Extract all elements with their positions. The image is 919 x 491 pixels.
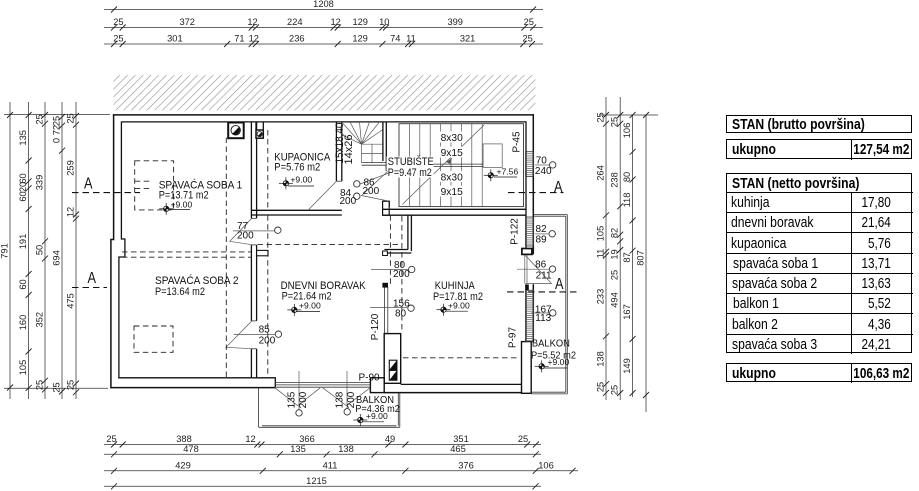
wall top outer [113, 114, 534, 116]
svg-text:25: 25 [518, 434, 528, 444]
svg-text:106: 106 [538, 460, 554, 470]
svg-text:25: 25 [106, 434, 116, 444]
svg-text:478: 478 [183, 444, 199, 454]
wall kupaonica bottom [251, 210, 341, 215]
wall left outer [111, 114, 114, 388]
svg-text:105: 105 [596, 226, 606, 242]
wall winder right boundary [383, 122, 386, 161]
svg-text:+9.00: +9.00 [448, 300, 470, 310]
svg-text:399: 399 [447, 17, 463, 27]
level +9.00 balkon 2 [353, 411, 388, 426]
svg-text:82: 82 [610, 228, 620, 238]
svg-text:P-120: P-120 [370, 313, 381, 340]
dashed wardrobe soba 2 [134, 326, 173, 352]
svg-text:74: 74 [390, 34, 400, 44]
svg-text:233: 233 [596, 289, 606, 305]
svg-text:200: 200 [259, 335, 276, 346]
svg-text:475: 475 [66, 293, 76, 309]
svg-text:388: 388 [176, 434, 192, 444]
svg-text:352: 352 [35, 312, 45, 328]
svg-text:82: 82 [536, 224, 548, 235]
dashed ceiling line horizontal corridor pair [122, 252, 251, 257]
svg-text:71: 71 [234, 34, 244, 44]
svg-text:301: 301 [167, 34, 183, 44]
wall pier between balcony doors [370, 378, 384, 393]
svg-text:60: 60 [18, 191, 28, 201]
svg-text:11: 11 [406, 34, 416, 44]
svg-text:A: A [84, 176, 93, 193]
svg-text:P-97: P-97 [508, 327, 519, 349]
svg-text:224: 224 [287, 17, 303, 27]
chimney vent boxes in pier [389, 360, 397, 380]
svg-text:+9.00: +9.00 [290, 174, 312, 184]
label door 80/200 [371, 269, 408, 271]
balcony 2 parapet [259, 388, 400, 428]
label door 86/200 stair [360, 173, 389, 184]
level +7.56 stubiste [484, 166, 519, 181]
svg-text:791: 791 [0, 243, 10, 259]
svg-text:694: 694 [52, 250, 62, 266]
svg-text:25: 25 [35, 114, 45, 124]
svg-text:264: 264 [596, 165, 606, 181]
svg-text:+9.00: +9.00 [366, 411, 388, 421]
door 135 swing [275, 388, 320, 406]
label door 85/200 [234, 333, 276, 335]
svg-text:P=9.47 m2: P=9.47 m2 [388, 167, 432, 179]
wire left dimension column 5 [75, 102, 77, 399]
svg-text:25: 25 [610, 270, 620, 280]
wire left extension line top [4, 114, 110, 116]
svg-text:135: 135 [287, 391, 298, 408]
table STAN netto [726, 173, 912, 353]
svg-text:106: 106 [622, 123, 632, 139]
svg-text:149: 149 [622, 358, 632, 374]
door 86/211 swing [526, 256, 552, 284]
table STAN brutto header [726, 115, 912, 133]
label door 86/211 [517, 268, 550, 270]
hatched neighbour structure band [113, 75, 535, 110]
wall kitchen bottom inner [401, 383, 522, 385]
svg-text:240: 240 [535, 166, 552, 177]
svg-text:429: 429 [175, 460, 191, 470]
glazing P-90 balcony 2 doors [275, 383, 371, 388]
wall cap below door 80 [383, 283, 388, 287]
svg-text:25: 25 [113, 17, 123, 27]
svg-text:14x26: 14x26 [343, 135, 355, 165]
svg-text:138: 138 [338, 444, 354, 454]
svg-text:465: 465 [450, 444, 466, 454]
section line A upper right [508, 192, 564, 194]
svg-text:118: 118 [622, 193, 632, 208]
svg-text:160: 160 [18, 315, 28, 331]
wire left extension line bottom [4, 387, 108, 389]
svg-text:376: 376 [458, 460, 474, 470]
stair winder flight [342, 122, 387, 165]
svg-text:113: 113 [535, 313, 551, 324]
svg-text:P=5.76 m2: P=5.76 m2 [274, 161, 320, 173]
wall balcony divider chunk [522, 342, 532, 394]
svg-text:366: 366 [299, 434, 315, 444]
wall kitchen bottom outer [384, 392, 531, 394]
svg-text:372: 372 [179, 17, 195, 27]
level +9.00 dnevni boravak [287, 301, 321, 316]
level +9.00 balkon 1 [535, 357, 570, 372]
svg-text:25: 25 [113, 34, 123, 44]
svg-text:+9.00: +9.00 [299, 301, 321, 311]
svg-text:P-122: P-122 [510, 218, 521, 245]
door 85 swing [226, 321, 252, 349]
wire left dimension column 3 [44, 102, 46, 399]
svg-text:89: 89 [536, 234, 548, 245]
wire right extension line top [599, 114, 658, 116]
svg-text:+9.00: +9.00 [171, 199, 193, 209]
svg-text:807: 807 [636, 250, 646, 266]
svg-text:25: 25 [66, 380, 76, 390]
svg-text:STUBIŠTE: STUBIŠTE [388, 155, 434, 168]
svg-text:259: 259 [66, 160, 76, 176]
wire bottom dimension row 1 [104, 444, 541, 446]
door 77 swing [230, 219, 252, 245]
svg-text:129: 129 [352, 17, 368, 27]
svg-text:1208: 1208 [313, 0, 334, 9]
svg-text:8x30: 8x30 [441, 173, 463, 184]
wire left dimension column 4 [61, 102, 63, 399]
svg-text:85: 85 [259, 325, 271, 336]
wall right inner [525, 121, 527, 341]
svg-text:12: 12 [66, 207, 76, 217]
wire top dimension row 2 [104, 27, 543, 29]
wall stubiste bottom [383, 209, 526, 215]
wire right dimension column C [632, 115, 634, 397]
wire left dimension column 2 [28, 102, 30, 399]
door 86/211 opening in right wall [525, 254, 535, 284]
svg-text:339: 339 [35, 175, 45, 191]
wall kupaonica right vertical [336, 122, 341, 181]
svg-text:25: 25 [523, 34, 533, 44]
svg-text:138: 138 [334, 391, 345, 408]
window P-120 kitchen left [384, 287, 387, 333]
svg-text:138: 138 [596, 351, 606, 367]
wire bottom dimension row 2 [104, 453, 541, 455]
svg-text:80: 80 [622, 172, 632, 182]
svg-text:20: 20 [18, 182, 28, 192]
svg-text:129: 129 [352, 34, 368, 44]
wall stub below stair door [383, 201, 390, 215]
svg-text:211: 211 [536, 271, 552, 282]
dashed wardrobe soba 1 [135, 161, 174, 210]
dashed ceiling line vertical stair hall [389, 215, 391, 287]
svg-text:11: 11 [596, 249, 606, 259]
wire bottom dimension row 4 total 1215 [104, 485, 541, 487]
svg-text:9x15: 9x15 [441, 187, 463, 198]
svg-text:135: 135 [18, 130, 28, 146]
svg-text:50: 50 [35, 245, 45, 255]
svg-text:12: 12 [331, 17, 341, 27]
section line A upper left [72, 192, 140, 194]
svg-text:1215: 1215 [306, 476, 327, 486]
svg-text:25: 25 [610, 385, 620, 395]
wire left dimension total 791 [9, 102, 11, 399]
svg-text:135: 135 [290, 444, 306, 454]
table STAN netto ukupno row [726, 363, 912, 383]
wall right outer [532, 114, 534, 342]
svg-text:105: 105 [18, 360, 28, 376]
svg-text:P-45: P-45 [512, 131, 523, 153]
dashed ceiling line horizontal kitchen [403, 357, 519, 359]
wire bottom dimension row 3 [104, 470, 578, 472]
svg-text:12: 12 [249, 34, 259, 44]
svg-text:25: 25 [610, 117, 620, 127]
label door 84/200 kupaonica [354, 193, 360, 199]
svg-text:A: A [555, 276, 564, 293]
dashed ceiling line vertical kupaonica/dnevni [267, 130, 269, 378]
level +9.00 soba 1 [159, 199, 192, 215]
svg-text:25: 25 [66, 113, 76, 123]
label window 156/80 [370, 307, 407, 309]
label window 82/89 [535, 233, 549, 235]
label door 138/200 rotated [346, 371, 348, 409]
wall jog pilaster right of door 77 [257, 250, 268, 255]
svg-text:200: 200 [363, 186, 380, 197]
dashed ceiling line vertical soba [225, 138, 227, 378]
svg-text:25: 25 [524, 17, 534, 27]
svg-text:86: 86 [535, 260, 547, 271]
svg-text:191: 191 [18, 234, 28, 250]
svg-text:+7.56: +7.56 [497, 166, 519, 176]
svg-text:12: 12 [247, 17, 257, 27]
wire right dimension column B [619, 97, 621, 400]
wall spavaca/kupaonica vertical with door openings [251, 122, 256, 218]
wall bottom-left outer [110, 387, 275, 389]
svg-text:60: 60 [18, 279, 28, 289]
table STAN brutto ukupno row [726, 139, 912, 159]
svg-text:494: 494 [610, 292, 620, 308]
window 167/113 P-97 in right wall [526, 290, 534, 341]
label window 167/113 [531, 312, 550, 314]
stair main well outline [399, 124, 524, 207]
section line A lower right [507, 291, 577, 293]
door 138 swing [323, 388, 371, 406]
svg-text:321: 321 [460, 34, 476, 44]
wire top dimension total 1208 [104, 9, 543, 11]
svg-text:49: 49 [385, 434, 395, 444]
stair treads [409, 124, 482, 207]
wire right dimension column D total 807 [645, 115, 647, 412]
window 82/89 P-122 in right wall [526, 217, 534, 246]
svg-text:200: 200 [340, 196, 357, 207]
svg-text:25: 25 [52, 382, 62, 392]
svg-text:200: 200 [298, 391, 309, 408]
svg-text:411: 411 [323, 460, 338, 470]
svg-text:BALKON: BALKON [532, 339, 570, 350]
svg-text:200: 200 [237, 231, 254, 242]
svg-text:0 72: 0 72 [52, 125, 62, 143]
wall cap above door 80 [383, 251, 388, 256]
level +9.00 kupaonica [279, 174, 314, 189]
label door 77/200 [233, 230, 275, 232]
chimney vent box 2 [256, 122, 263, 138]
svg-text:8x30: 8x30 [441, 133, 463, 144]
svg-text:25: 25 [35, 380, 45, 390]
wall stair hall left with door 86 opening [386, 161, 389, 171]
svg-text:80: 80 [395, 309, 407, 320]
wire top dimension row 3 [104, 43, 543, 45]
svg-text:P=13.64 m2: P=13.64 m2 [155, 286, 205, 298]
wall bottom-left inner [118, 378, 275, 388]
wall top inner [122, 121, 526, 123]
svg-text:87: 87 [622, 252, 632, 262]
label door 135/200 rotated [298, 371, 300, 410]
svg-text:25: 25 [52, 116, 62, 126]
wire right dimension column A [605, 97, 607, 400]
dashed ceiling line vertical kitchen [401, 216, 403, 332]
svg-text:9x15: 9x15 [441, 148, 463, 159]
wall left inner with pilaster [119, 121, 125, 378]
stair mid landing lines [388, 164, 483, 166]
level +9.00 kuhinja [437, 300, 470, 315]
svg-text:+9.00: +9.00 [548, 357, 570, 367]
svg-text:10: 10 [379, 17, 389, 27]
svg-text:25: 25 [596, 382, 606, 392]
svg-text:238: 238 [610, 172, 620, 188]
door 86 swing stair hall [362, 171, 388, 201]
door 84 swing kupaonica [308, 182, 336, 211]
wall nook L below stubiste [384, 215, 411, 253]
svg-text:167: 167 [622, 304, 632, 320]
svg-text:A: A [554, 179, 563, 196]
svg-text:25: 25 [596, 112, 606, 122]
chimney vent box 1 [228, 123, 244, 139]
stair landing inner rect [483, 144, 502, 168]
svg-text:200: 200 [393, 269, 410, 280]
svg-text:200: 200 [346, 391, 357, 408]
svg-text:19: 19 [610, 249, 620, 259]
svg-text:236: 236 [289, 34, 305, 44]
window 70/240 P-45 in right wall [526, 152, 534, 177]
dashed ceiling line horizontal corridor right [258, 244, 402, 246]
svg-text:A: A [88, 270, 97, 287]
svg-text:351: 351 [453, 434, 469, 444]
section line A lower left [72, 287, 107, 289]
balcony 1 parapet [532, 215, 568, 394]
svg-text:12: 12 [245, 434, 255, 444]
label window 70/240 [535, 164, 550, 166]
stair up diagonal [402, 125, 484, 205]
wall kitchen bottom-left pier [384, 334, 401, 384]
svg-text:P-90: P-90 [359, 372, 381, 383]
